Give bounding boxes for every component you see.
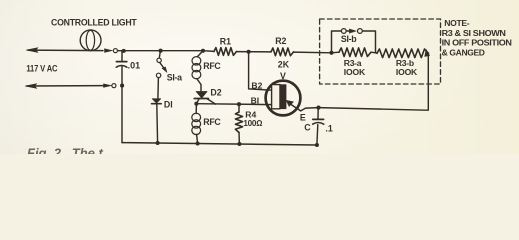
node: rail end dot at C2 — [315, 143, 319, 147]
receptacle circle (top line) — [113, 49, 117, 53]
switch S1-b right contact circle — [358, 29, 363, 34]
svg-text:IOOK: IOOK — [344, 67, 366, 77]
node: junction dot D2/RFC2/B1 — [194, 102, 198, 106]
node: rail dot at R4 — [237, 142, 241, 146]
svg-text:NOTE-: NOTE- — [444, 18, 469, 28]
wire: R4 bottom lead — [238, 133, 240, 145]
node: junction dot at C1 branch — [122, 49, 126, 53]
node: junction dot at S1-a branch — [159, 49, 163, 53]
wire: B2 drop from top line — [249, 52, 272, 90]
svg-text:Fig. 2. The t: Fig. 2. The t — [27, 146, 104, 155]
wire: R3-a to R3-b link — [371, 51, 377, 54]
svg-text:R1: R1 — [220, 36, 231, 46]
plug arrow into receptacle (bottom lead) — [104, 84, 112, 88]
wire: RFC2 to bottom rail — [197, 134, 198, 143]
capacitor C2 .1 top plate — [313, 118, 324, 120]
switch S1-a blade with arrowhead — [160, 63, 164, 68]
wiper arrowhead up into R3-b — [425, 49, 430, 56]
svg-text:R2: R2 — [275, 36, 286, 46]
switch S1-b blade with arrowhead — [346, 30, 350, 32]
wire: bottom rail — [122, 143, 317, 145]
wire: diagonal from D2 bar to B1 line — [208, 99, 216, 104]
capacitor C2 .1 curved bottom plate — [313, 123, 324, 125]
svg-text:BI: BI — [251, 96, 260, 106]
svg-text:E: E — [300, 113, 306, 123]
transistor V emitter line with arrowhead into bar — [289, 103, 300, 111]
wire: left arrowhead bottom AC lead — [25, 84, 37, 89]
svg-text:B2: B2 — [251, 80, 262, 90]
wire: node to R3-a — [332, 51, 340, 54]
wire: S1-a to D1 — [157, 78, 160, 99]
wire: D2 bar down to junction — [196, 99, 199, 104]
svg-text:2K: 2K — [278, 60, 290, 70]
wire: from C1 down to bottom AC junction and to ground rail — [121, 67, 123, 143]
resistor R4 zigzag — [235, 112, 242, 133]
node: junction dot at B2 drop — [247, 50, 251, 54]
svg-text:SI-a: SI-a — [167, 72, 182, 82]
svg-text:& GANGED: & GANGED — [442, 47, 485, 57]
wire: B1 line to transistor base bar — [196, 103, 271, 106]
wire: left vertical branch x=122 — [121, 51, 123, 61]
svg-text:C: C — [304, 123, 311, 133]
node: rail dot at RFC2 — [196, 141, 200, 145]
switch S1-a stub from top wire — [159, 51, 160, 58]
svg-text:RFC: RFC — [203, 117, 221, 127]
wire: top AC line middle section — [118, 50, 214, 53]
wire: junction to RFC2 — [195, 104, 197, 114]
switch S1-a upper contact circle — [157, 58, 161, 62]
wire: D1 to bottom rail — [156, 104, 159, 143]
node: junction dot at RFC branch — [201, 49, 205, 53]
wire: top line between R1 and R2 — [237, 51, 272, 53]
resistor R2 zigzag — [271, 48, 294, 56]
diode D1 cathode bar — [152, 103, 162, 105]
capacitor C1 .01 curved bottom plate — [116, 66, 127, 68]
svg-text:100Ω: 100Ω — [243, 119, 262, 128]
transistor V (UJT) circle — [266, 81, 301, 116]
node: junction dot R4 top on B1 line — [237, 102, 241, 106]
switch S1-b left contact circle — [341, 29, 346, 34]
svg-text:DI: DI — [164, 99, 173, 109]
svg-text:.01: .01 — [128, 61, 141, 71]
wire: RFC1 stub from top wire — [198, 51, 204, 57]
lamp: controlled light bulb circle — [80, 30, 101, 51]
wire: left arrowhead top AC line — [26, 48, 38, 53]
wire: R4 top lead — [238, 104, 240, 112]
node: junction dot bottom AC to C1 branch — [120, 84, 124, 88]
transistor V base box (outlined) — [272, 85, 280, 109]
svg-text:117 V AC: 117 V AC — [26, 63, 57, 73]
svg-text:SI-b: SI-b — [341, 34, 357, 44]
inductor RFC1 coil loops — [192, 57, 201, 65]
lamp: filament loop ellipse — [86, 30, 94, 50]
svg-text:RFC: RFC — [203, 61, 221, 71]
resistor R1 zigzag — [214, 48, 237, 56]
wire: S1-b left leg up — [332, 31, 342, 53]
capacitor C1 .01 top plate — [116, 61, 126, 63]
svg-text:CONTROLLED LIGHT: CONTROLLED LIGHT — [51, 17, 137, 27]
diode D2 anode bar — [194, 98, 208, 100]
wire: top AC line left section — [28, 49, 103, 52]
node: rail dot at D1 — [156, 141, 160, 145]
diode D2 triangle — [196, 92, 207, 99]
svg-text:IN OFF POSITION: IN OFF POSITION — [442, 38, 512, 48]
wire: S1-b right leg down to R3-a/R3-b junction — [363, 31, 376, 52]
potentiometer R3-a zigzag — [339, 48, 371, 57]
receptacle circle (bottom lead) — [112, 84, 116, 88]
wire: RFC1 to D2 — [197, 79, 201, 92]
svg-text:.1: .1 — [325, 124, 332, 134]
node: junction dot at R3/S1-b node — [329, 51, 333, 55]
wire: top line R2 to dimmer box node — [294, 51, 332, 54]
wire: C2 bottom lead to rail — [316, 125, 319, 145]
svg-text:IOOK: IOOK — [396, 67, 418, 77]
svg-text:D2: D2 — [210, 87, 221, 97]
transistor V base bar (filled) — [280, 84, 286, 109]
diode D1 triangle — [152, 99, 161, 103]
wire: emitter out to E line — [301, 108, 319, 111]
wire: C2 top lead — [317, 108, 319, 119]
switch S1-a lower contact circle — [156, 73, 160, 77]
svg-text:R4: R4 — [245, 109, 256, 119]
wire: E line to dimmer wiper corner — [319, 55, 429, 110]
svg-text:V: V — [280, 71, 286, 81]
dashed enclosure box for R3/S1-b — [320, 19, 441, 84]
plug arrow into receptacle (top line) — [105, 49, 113, 53]
node: junction dot at C2 on E line — [316, 106, 320, 110]
potentiometer R3-b zigzag — [377, 49, 429, 58]
wire: 117VAC bottom lead — [27, 85, 104, 87]
svg-text:R3 & SI SHOWN: R3 & SI SHOWN — [442, 28, 506, 38]
inductor RFC2 coil loops — [192, 113, 201, 121]
